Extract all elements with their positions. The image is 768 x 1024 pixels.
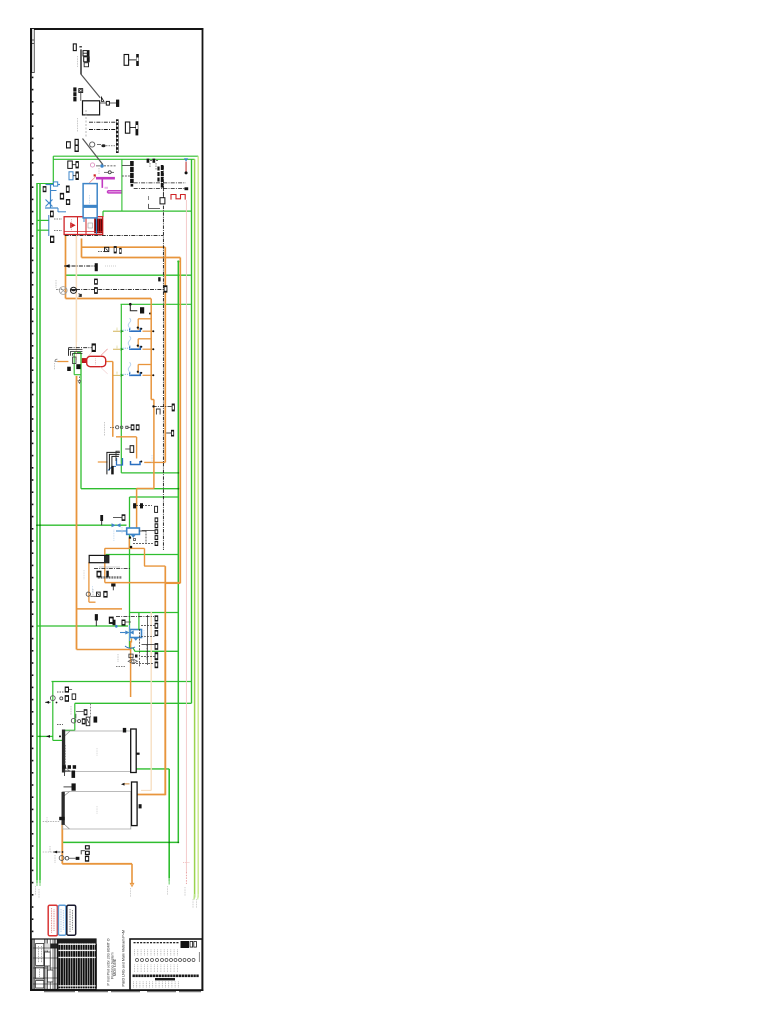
svg-text:MOV LINE: MOV LINE (113, 958, 117, 976)
svg-text:P&ID LNG and Main Vietnam P+M: P&ID LNG and Main Vietnam P+M (121, 930, 125, 987)
